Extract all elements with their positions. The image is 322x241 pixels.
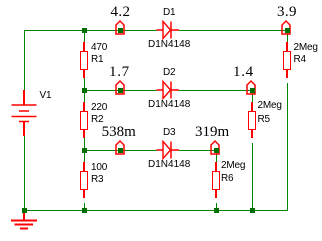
junction at R5 top xyxy=(250,88,255,93)
viewpoint marker at node 3.9 xyxy=(280,19,292,35)
wire below R5 to bottom rail xyxy=(252,143,253,211)
junction at ground xyxy=(22,208,27,213)
wire stub above R6 xyxy=(216,153,217,162)
battery V1 name label xyxy=(40,90,52,101)
wire row2 horizontal right of D2 xyxy=(179,90,252,91)
diode D3 xyxy=(153,138,181,162)
wire row3 horizontal left of D3 xyxy=(84,150,157,151)
wire bottom rail horizontal xyxy=(24,210,288,211)
junction at R6 bottom xyxy=(214,208,219,213)
resistor R1 bottom lead xyxy=(83,70,85,78)
wire row3 horizontal right of D3 xyxy=(179,150,216,151)
wire right rail vertical below R4 xyxy=(287,83,288,212)
node voltage 1.4 xyxy=(233,65,254,80)
resistor R5 top lead xyxy=(251,102,253,111)
resistor R2 body xyxy=(80,111,88,130)
wire stub below R2 xyxy=(84,138,85,149)
resistor R1 value label 470 xyxy=(91,42,107,53)
resistor R5 bottom lead xyxy=(251,130,253,139)
diode D2 model label D1N4148 xyxy=(148,99,190,110)
resistor R3 body xyxy=(80,171,88,190)
resistor R4 top lead xyxy=(286,42,288,51)
wire stub above R1 xyxy=(84,33,85,42)
resistor R6 top lead xyxy=(215,162,217,171)
wire stub below R3 xyxy=(84,203,85,209)
resistor R1 name label xyxy=(91,54,103,65)
resistor R3 bottom lead xyxy=(83,190,85,199)
wire stub below R6 xyxy=(216,203,217,209)
resistor R4 name label xyxy=(294,54,306,65)
resistor R5 value label 2Meg xyxy=(258,100,282,111)
resistor R6 name label xyxy=(221,173,233,184)
resistor R5 name label xyxy=(258,114,270,125)
viewpoint marker at node 538m xyxy=(114,139,126,155)
junction at R5 bottom xyxy=(250,208,255,213)
wire row2 horizontal left of D2 xyxy=(84,90,157,91)
diode D3 model label D1N4148 xyxy=(148,159,190,170)
node voltage 4.2 xyxy=(111,5,131,20)
resistor R3 value label 100 xyxy=(91,162,107,173)
wire stub above R5 xyxy=(252,93,253,102)
resistor R2 value label 220 xyxy=(91,102,107,113)
resistor R2 top lead xyxy=(83,102,85,111)
diode D1 model label D1N4148 xyxy=(148,39,190,50)
wire stub above R4 xyxy=(287,33,288,42)
viewpoint marker at node 1.7 xyxy=(114,79,126,95)
resistor R5 body xyxy=(248,111,256,130)
resistor R4 body xyxy=(283,51,291,70)
resistor R1 top lead xyxy=(83,42,85,51)
node voltage 538m xyxy=(102,125,136,140)
diode D1 xyxy=(153,18,181,42)
junction at R1 top xyxy=(82,28,87,33)
viewpoint marker at node 4.2 xyxy=(114,19,126,35)
junction at R6 top xyxy=(214,148,219,153)
diode D2 xyxy=(153,78,181,102)
resistor R6 bottom lead xyxy=(215,190,217,199)
resistor R6 value label 2Meg xyxy=(221,160,245,171)
diode D1 name label xyxy=(163,7,175,18)
viewpoint marker at node 1.4 xyxy=(245,79,257,95)
node voltage 3.9 xyxy=(277,5,297,20)
resistor R4 value label 2Meg xyxy=(294,42,318,53)
wire left rail vertical upper xyxy=(24,30,25,90)
junction at R3 bottom xyxy=(82,208,87,213)
diode D2 name label xyxy=(163,67,175,78)
resistor R3 top lead xyxy=(83,162,85,171)
resistor R2 name label xyxy=(91,114,103,125)
junction at 4.2 marker xyxy=(118,28,123,33)
resistor R2 bottom lead xyxy=(83,130,85,138)
resistor R1 body xyxy=(80,51,88,70)
diode D3 name label xyxy=(163,127,175,138)
junction at 1.7 marker xyxy=(118,88,123,93)
resistor R4 bottom lead xyxy=(286,70,288,79)
junction at top right corner xyxy=(285,28,290,33)
node voltage 1.7 xyxy=(109,65,130,80)
node voltage 319m xyxy=(195,125,229,140)
junction at R3 top xyxy=(82,148,87,153)
wire stub above R2 xyxy=(84,93,85,102)
wire top rail horizontal left of D1 xyxy=(24,30,157,31)
junction at R2 top xyxy=(82,88,87,93)
wire stub above R3 xyxy=(84,153,85,162)
viewpoint marker at node 319m xyxy=(209,139,221,155)
battery V1 xyxy=(8,88,42,138)
resistor R3 name label xyxy=(91,174,103,185)
junction at 538m marker xyxy=(118,148,123,153)
wire stub below R1 xyxy=(84,78,85,89)
resistor R6 body xyxy=(212,171,220,190)
ground symbol xyxy=(8,209,42,233)
wire left rail vertical lower xyxy=(24,136,25,211)
wire top rail horizontal right of D1 xyxy=(179,30,288,31)
